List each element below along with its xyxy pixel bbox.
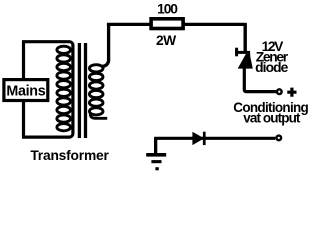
diode D2 cathode bar (203, 132, 206, 145)
ground symbol (146, 153, 166, 157)
wire right vertical to zener (243, 23, 246, 52)
wire mains left vertical (22, 42, 25, 137)
zener right tick (247, 54, 250, 57)
wire zener to plus terminal (244, 68, 276, 92)
transformer T1 secondary winding (102, 24, 109, 66)
plus sign (287, 88, 296, 97)
zener anode triangle (238, 54, 253, 69)
zener left tick (235, 48, 238, 57)
svg-text:100: 100 (157, 1, 178, 16)
svg-text:Transformer: Transformer (30, 148, 109, 163)
svg-text:2W: 2W (156, 33, 177, 48)
transformer T1 primary winding (57, 46, 71, 131)
wire top rail left of resistor (107, 23, 150, 26)
zener diode D1 cathode bar (235, 51, 250, 54)
transformer T1 core (79, 43, 85, 138)
svg-text:diode: diode (255, 60, 289, 75)
mains box (4, 80, 48, 101)
svg-text:vat output: vat output (243, 110, 301, 125)
wire secondary bottom stub (90, 113, 107, 119)
diode D2 triangle (192, 132, 202, 145)
wire top rail right of resistor (184, 23, 244, 26)
wire primary top (22, 42, 73, 137)
svg-text:Mains: Mains (6, 83, 45, 99)
terminal minus output (276, 136, 281, 141)
wire ground riser (154, 138, 157, 153)
terminal plus output (277, 89, 282, 94)
wire bottom rail (154, 137, 275, 140)
resistor R1 100 2W (151, 19, 183, 29)
